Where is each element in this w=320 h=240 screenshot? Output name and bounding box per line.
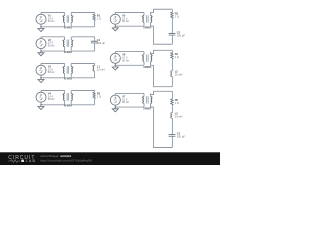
svg-text:60 Hz: 60 Hz	[48, 44, 55, 48]
wire	[41, 77, 65, 79]
wire	[71, 50, 94, 52]
wire	[41, 50, 65, 52]
junction node at V1 minus	[40, 26, 42, 28]
wire	[151, 103, 173, 147]
svg-text:http://circuitlab.com/c67t7a5q: http://circuitlab.com/c67t7a5q4kq99	[40, 158, 92, 162]
label V1 value	[48, 14, 55, 24]
svg-text:60 Hz: 60 Hz	[48, 19, 55, 23]
footer url text	[40, 158, 92, 162]
label XFMR3	[64, 78, 73, 81]
wire	[115, 106, 144, 108]
svg-text:XFMR6: XFMR6	[143, 66, 152, 69]
inductor L2	[171, 59, 173, 76]
label C3 value	[177, 132, 186, 139]
svg-text:60 Hz: 60 Hz	[48, 97, 55, 101]
voltage source V7	[110, 93, 120, 107]
wire	[71, 77, 94, 79]
label XFMR6	[143, 66, 152, 69]
junction node at V3 minus	[40, 77, 42, 79]
capacitor C3	[169, 118, 176, 136]
label XFMR7	[143, 108, 152, 111]
transformer XFMR3	[62, 64, 73, 78]
wire	[71, 36, 94, 38]
label XFMR2	[64, 51, 73, 54]
transformer XFMR2	[62, 37, 73, 51]
wire	[151, 50, 173, 54]
inductor L1	[93, 64, 95, 78]
svg-text:1 Ω: 1 Ω	[175, 101, 179, 105]
wire	[41, 26, 65, 28]
label V3 value	[48, 65, 55, 75]
resistor R4	[171, 50, 173, 59]
transformer XFMR7	[142, 93, 153, 107]
wire	[115, 92, 144, 94]
wire	[41, 90, 65, 92]
label V4 value	[48, 92, 55, 102]
resistor R3	[171, 9, 173, 18]
wire	[151, 91, 173, 96]
wire	[71, 12, 94, 14]
svg-text:10 mH: 10 mH	[175, 73, 183, 77]
voltage source V1	[36, 13, 46, 27]
label L3 value	[175, 112, 183, 119]
label L2 value	[175, 70, 183, 77]
wire	[71, 63, 94, 65]
wire	[71, 104, 94, 106]
wire	[115, 12, 144, 14]
label V5 value	[122, 14, 129, 24]
ground	[38, 78, 44, 83]
ground	[38, 105, 44, 110]
svg-text:100 µF: 100 µF	[177, 33, 186, 37]
wire	[115, 25, 144, 27]
label R5 value	[175, 98, 179, 105]
wire	[71, 26, 94, 28]
wire	[71, 90, 94, 92]
label R1 value	[97, 14, 101, 21]
label XFMR1	[64, 27, 73, 30]
transformer XFMR5	[142, 13, 153, 27]
svg-text:1 Ω: 1 Ω	[175, 14, 179, 18]
svg-text:1 Ω: 1 Ω	[97, 16, 101, 20]
voltage source V2	[36, 37, 46, 51]
svg-text:100 µF: 100 µF	[177, 135, 186, 139]
ground	[38, 27, 44, 32]
wire	[151, 9, 173, 15]
wire	[41, 12, 65, 14]
svg-text:10 mH: 10 mH	[97, 67, 105, 71]
label L1 value	[97, 64, 105, 71]
voltage source V6	[110, 52, 120, 66]
label R4 value	[175, 52, 179, 59]
inductor L3	[171, 105, 173, 118]
voltage source V5	[110, 13, 120, 27]
wire	[41, 63, 65, 65]
wire	[171, 76, 173, 86]
label V2 value	[48, 38, 55, 48]
label V6 value	[122, 53, 129, 63]
svg-text:60 Hz: 60 Hz	[48, 70, 55, 74]
label C2 value	[177, 30, 186, 37]
svg-text:100 µF: 100 µF	[97, 41, 106, 45]
transformer XFMR1	[62, 13, 73, 27]
ground	[112, 65, 118, 70]
wire	[171, 35, 173, 44]
junction node at V2 minus	[40, 50, 42, 52]
wire	[151, 62, 173, 87]
wire	[41, 36, 65, 38]
junction node at V7 minus	[115, 106, 117, 108]
ground	[38, 51, 44, 56]
capacitor C1	[91, 37, 98, 51]
junction node at V4 minus	[40, 104, 42, 106]
wire	[151, 22, 173, 44]
svg-text:1 Ω: 1 Ω	[97, 94, 101, 98]
transformer XFMR6	[142, 52, 153, 66]
junction node at V5 minus	[115, 25, 117, 27]
wire	[171, 136, 173, 147]
capacitor C2	[169, 19, 176, 36]
resistor R1	[93, 13, 95, 27]
svg-text:60 Hz: 60 Hz	[122, 19, 129, 23]
label R2 value	[97, 92, 101, 99]
svg-text:XFMR7: XFMR7	[143, 108, 152, 111]
svg-text:LAB: LAB	[26, 159, 37, 163]
ground	[112, 26, 118, 31]
label V7 value	[122, 95, 129, 105]
svg-text:XFMR5: XFMR5	[143, 27, 152, 30]
resistor R2	[93, 91, 95, 105]
wire	[115, 64, 144, 66]
voltage source V3	[36, 64, 46, 78]
resistor R5	[171, 91, 173, 105]
svg-text:60 Hz: 60 Hz	[122, 100, 129, 104]
ground	[112, 107, 118, 112]
footer attribution text	[40, 154, 71, 158]
label C1 value	[97, 38, 106, 45]
CircuitLab logo	[8, 155, 36, 163]
label R3 value	[175, 11, 179, 18]
svg-text:60 Hz: 60 Hz	[122, 58, 129, 62]
svg-text:10 mH: 10 mH	[175, 115, 183, 119]
transformer XFMR4	[62, 91, 73, 105]
svg-text:1 Ω: 1 Ω	[175, 55, 179, 59]
voltage source V4	[36, 91, 46, 105]
label XFMR5	[143, 27, 152, 30]
label XFMR4	[64, 105, 73, 108]
wire	[41, 104, 65, 106]
footer bar	[0, 152, 220, 165]
wire	[115, 51, 144, 53]
junction node at V6 minus	[115, 65, 117, 67]
